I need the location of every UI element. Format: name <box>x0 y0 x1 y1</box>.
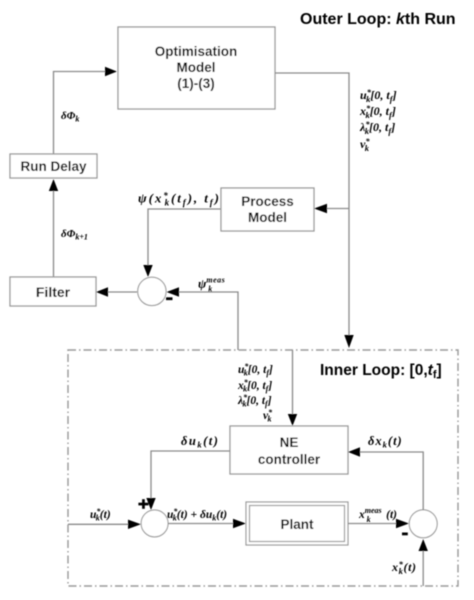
svg-text:u*k(t) + δuk(t): u*k(t) + δuk(t) <box>167 507 227 523</box>
wire: Filter output up into Run Delay <box>53 190 55 277</box>
block: Process Model <box>221 188 314 231</box>
wire: inner loop measurement up to summing junction S1 <box>179 292 238 350</box>
wire: branch from main line into Process Model <box>326 208 349 210</box>
wire: Optimisation Model output right and down to inner loop <box>275 73 349 336</box>
svg-text:Process: Process <box>241 194 294 209</box>
svg-text:Outer Loop: kth Run: Outer Loop: kth Run <box>300 11 456 28</box>
wire: Plant output into right summing junction S3 <box>348 523 397 525</box>
summing junction S3 (right inner) <box>409 510 437 538</box>
summing junction S1 (outer) <box>138 277 166 305</box>
wire: reference input u*k(t) into S2 <box>68 523 129 525</box>
svg-text:u*k(t): u*k(t) <box>90 507 111 523</box>
wire: summing junction output into Filter <box>107 291 137 293</box>
wire: Run Delay output up and right into Optimisation Model <box>54 72 107 155</box>
wire: reference x*k(t) from bottom into S3 <box>422 551 424 586</box>
inner loop dashed boundary <box>68 350 458 586</box>
svg-text:(1)-(3): (1)-(3) <box>177 76 215 91</box>
minus sign at S1 right input <box>166 297 173 300</box>
wire: S2 output into Plant <box>168 523 234 525</box>
wire: inner loop input down into NE controller <box>292 350 294 415</box>
svg-text:Plant: Plant <box>280 517 314 532</box>
svg-text:Inner Loop: [0,tf]: Inner Loop: [0,tf] <box>320 362 442 381</box>
wire: Process Model output to summing junction S1 <box>148 209 221 265</box>
block: Plant (double border) <box>246 502 348 545</box>
summing junction S2 (left inner) <box>141 510 168 537</box>
svg-text:Filter: Filter <box>36 284 71 300</box>
block: Run Delay <box>10 154 97 178</box>
plus sign at left summing junction <box>138 499 148 509</box>
svg-text:Model: Model <box>177 60 216 75</box>
svg-text:Run Delay: Run Delay <box>20 159 87 174</box>
block: NE controller <box>230 426 348 474</box>
block U1: Optimisation Model (1)-(3) <box>118 27 275 109</box>
svg-text:controller: controller <box>258 452 321 467</box>
svg-text:x*k(t): x*k(t) <box>391 559 417 576</box>
svg-text:ν*k: ν*k <box>360 136 370 153</box>
svg-text:Model: Model <box>248 210 287 225</box>
svg-text:ψ(x*k(tf), tf): ψ(x*k(tf), tf) <box>138 191 221 208</box>
svg-text:Optimisation: Optimisation <box>155 44 238 59</box>
svg-text:NE: NE <box>280 435 299 450</box>
minus sign at S3 <box>402 533 408 536</box>
wire: S3 output up and left into NE controller (delta xk) <box>360 452 423 510</box>
wire: NE controller output left and down to left summing junction <box>151 451 230 498</box>
block: Filter <box>10 277 96 306</box>
